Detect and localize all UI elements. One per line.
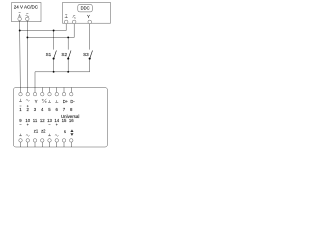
svg-text:z1: z1 xyxy=(34,129,39,134)
svg-text:Y: Y xyxy=(87,14,90,19)
svg-text:D+: D+ xyxy=(63,99,69,104)
svg-text:24 V AC/DC: 24 V AC/DC xyxy=(14,5,39,10)
svg-text:11: 11 xyxy=(33,118,38,123)
svg-text:z2: z2 xyxy=(41,129,46,134)
svg-text:12: 12 xyxy=(40,118,45,123)
svg-text:s: s xyxy=(64,129,66,134)
svg-text:S1: S1 xyxy=(46,52,52,57)
svg-text:Y: Y xyxy=(35,99,38,104)
svg-text:S2: S2 xyxy=(61,52,67,57)
svg-text:S3: S3 xyxy=(83,52,89,57)
svg-text:13: 13 xyxy=(47,118,52,123)
svg-text:10: 10 xyxy=(25,118,30,123)
svg-text:Universal: Universal xyxy=(61,114,79,119)
svg-text:D-: D- xyxy=(70,99,75,104)
svg-text:DDC: DDC xyxy=(81,6,90,11)
svg-text:14: 14 xyxy=(54,118,59,123)
